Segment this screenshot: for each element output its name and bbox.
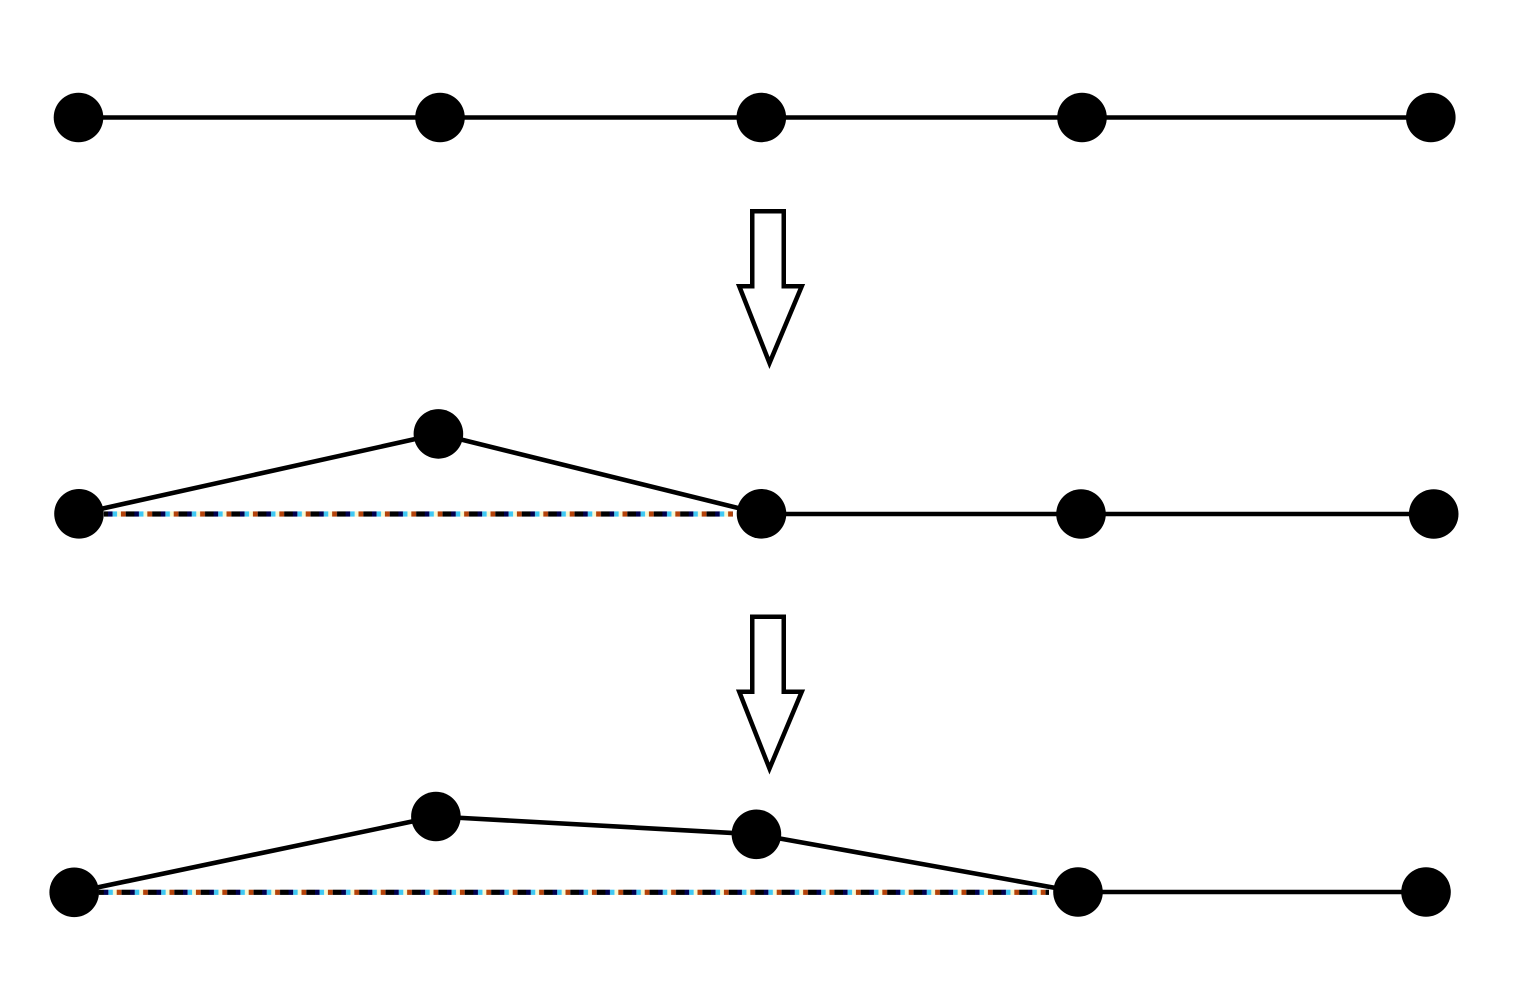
dashed removed edge row2 v1-v3 (104, 511, 733, 516)
node row2 v4 (1056, 489, 1106, 539)
row 3 path graph (49, 792, 1450, 917)
wire row2 edge v1-apex (79, 434, 438, 514)
node row3 v4 (1053, 867, 1103, 917)
wire row3 edge apex1-apex2 (436, 817, 757, 835)
node row2 v3 (737, 489, 787, 539)
node row1 v2 (415, 93, 465, 143)
wire row1 baseline (79, 115, 1431, 120)
wire row3 edge v1-apex1 (74, 817, 436, 893)
arrow 1 (down) (739, 211, 802, 363)
node row3 v5 (1401, 867, 1451, 917)
wire row2 edge apex-v3 (438, 434, 761, 514)
row 1 path graph (54, 93, 1456, 143)
dashed removed edge row3 v1-v4 (99, 890, 1049, 895)
arrow 2 (down) (739, 617, 802, 769)
node row3 v1 (49, 868, 99, 918)
wire row3 edge v4-v5 (1078, 890, 1426, 895)
node row1 v1 (54, 93, 104, 143)
node row2 v5 (1409, 489, 1459, 539)
wire row2 edge v3-v4 (762, 512, 1082, 517)
node row1 v4 (1057, 93, 1107, 143)
row 2 path graph (54, 409, 1458, 539)
node row2 v1 (54, 489, 104, 539)
wire row2 edge v4-v5 (1081, 512, 1434, 517)
wire row3 edge apex2-v4 (756, 834, 1078, 892)
node row3 apex2 (732, 810, 782, 860)
node row1 v3 (737, 93, 787, 143)
node row2 apex (414, 409, 464, 459)
node row3 apex1 (411, 792, 461, 842)
node row1 v5 (1406, 93, 1456, 143)
